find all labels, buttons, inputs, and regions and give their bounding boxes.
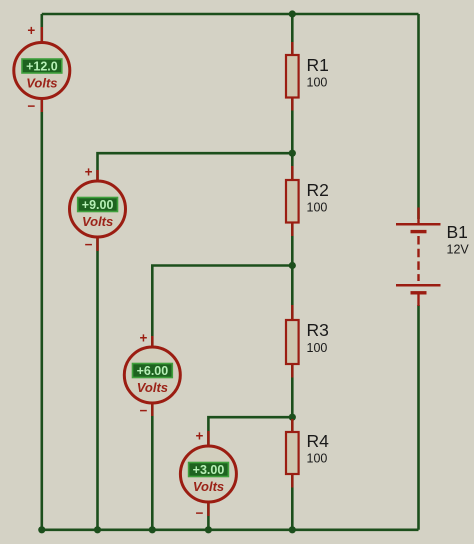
svg-text:+9.00: +9.00 [82,198,114,212]
battery B1 [396,208,441,307]
node: junction bottom rail / R4 [289,526,296,533]
svg-text:−: − [27,99,35,114]
wire: bottom rail [42,528,419,531]
svg-text:Volts: Volts [26,76,57,91]
svg-text:R3: R3 [307,320,329,340]
svg-text:100: 100 [307,452,328,466]
svg-text:+6.00: +6.00 [137,364,169,378]
svg-text:100: 100 [307,201,328,215]
node: junction bottom rail / VM1 [38,526,45,533]
wire: VM4 branch rail [208,417,292,531]
svg-text:Volts: Volts [137,380,168,395]
svg-text:−: − [196,506,204,521]
svg-text:+12.0: +12.0 [26,59,58,73]
svg-text:Volts: Volts [193,479,224,494]
svg-text:B1: B1 [447,222,468,242]
node: junction top rail / R1 [289,10,296,17]
svg-text:R1: R1 [307,55,329,75]
wire: VM2 branch rail [98,153,293,531]
svg-text:R2: R2 [307,180,329,200]
svg-text:+: + [27,23,35,38]
node: junction R1/R2 rail2 [289,150,296,157]
node: junction R2/R3 rail3 [289,262,296,269]
wire: VM3 branch rail [152,266,292,531]
resistor R1 [286,42,299,111]
svg-text:100: 100 [307,341,328,355]
resistor R4 [286,419,299,488]
svg-text:12V: 12V [447,243,470,257]
voltmeter VM3 (+6.00 V) [124,336,180,416]
node: junction bottom rail / VM2 [94,526,101,533]
wire: top rail from V1 to battery [42,13,419,16]
node: junction R3/R4 rail4 [289,414,296,421]
svg-text:+: + [139,331,147,346]
wire: VM1 column [40,14,43,530]
svg-text:+: + [196,429,204,444]
svg-text:+: + [85,165,93,180]
voltmeter VM1 (+12.0 V) [14,27,70,112]
node: junction bottom rail / VM3 [149,526,156,533]
voltmeter VM4 (+3.00 V) [180,431,236,516]
wire: resistor chain column [291,14,294,530]
svg-text:+3.00: +3.00 [193,463,225,477]
svg-text:R4: R4 [307,431,330,451]
wire: battery column top [417,14,420,219]
svg-text:100: 100 [307,76,328,90]
wire: battery column bottom [417,305,420,530]
voltmeter VM2 (+9.00 V) [70,170,126,251]
svg-text:−: − [139,403,147,418]
node: junction bottom rail / VM4 [205,526,212,533]
resistor R3 [286,305,299,378]
svg-text:−: − [85,237,93,252]
resistor R2 [286,166,299,236]
svg-text:Volts: Volts [82,214,113,229]
